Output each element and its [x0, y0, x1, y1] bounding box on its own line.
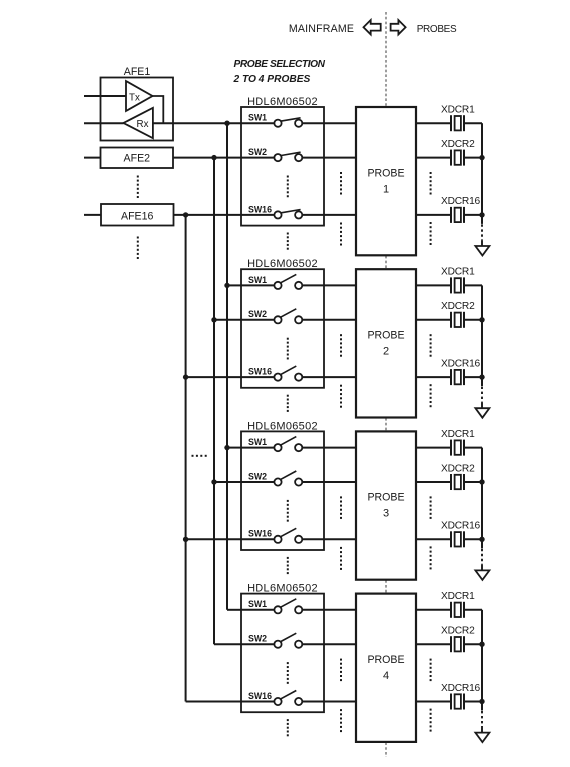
svg-text:XDCR2: XDCR2: [441, 463, 475, 474]
svg-text:SW16: SW16: [248, 691, 272, 701]
svg-text:SW2: SW2: [248, 471, 267, 481]
svg-text:XDCR16: XDCR16: [441, 196, 481, 207]
svg-text:1: 1: [383, 183, 389, 195]
svg-text:3: 3: [383, 508, 389, 520]
svg-text:PROBES: PROBES: [417, 24, 457, 35]
svg-text:SW1: SW1: [248, 113, 267, 123]
svg-text:SW16: SW16: [248, 367, 272, 377]
svg-text:PROBE SELECTION: PROBE SELECTION: [234, 59, 326, 70]
svg-text:XDCR16: XDCR16: [441, 358, 481, 369]
svg-text:XDCR1: XDCR1: [441, 105, 475, 116]
svg-text:SW1: SW1: [248, 275, 267, 285]
svg-text:2 TO 4 PROBES: 2 TO 4 PROBES: [233, 74, 311, 85]
svg-text:PROBE: PROBE: [367, 492, 404, 504]
svg-text:SW2: SW2: [248, 309, 267, 319]
svg-text:XDCR1: XDCR1: [441, 591, 475, 602]
svg-text:XDCR16: XDCR16: [441, 683, 481, 694]
svg-text:SW2: SW2: [248, 147, 267, 157]
svg-text:SW1: SW1: [248, 437, 267, 447]
svg-text:SW16: SW16: [248, 204, 272, 214]
svg-text:XDCR1: XDCR1: [441, 267, 475, 278]
svg-text:XDCR2: XDCR2: [441, 139, 475, 150]
svg-text:XDCR2: XDCR2: [441, 301, 475, 312]
svg-text:2: 2: [383, 346, 389, 358]
svg-text:AFE2: AFE2: [124, 152, 151, 164]
svg-text:SW2: SW2: [248, 634, 267, 644]
svg-text:MAINFRAME: MAINFRAME: [289, 23, 354, 35]
svg-text:XDCR2: XDCR2: [441, 626, 475, 637]
svg-text:SW1: SW1: [248, 599, 267, 609]
svg-text:SW16: SW16: [248, 529, 272, 539]
svg-text:AFE1: AFE1: [124, 66, 151, 78]
svg-text:PROBE: PROBE: [367, 330, 404, 342]
svg-text:PROBE: PROBE: [367, 167, 404, 179]
svg-text:XDCR16: XDCR16: [441, 521, 481, 532]
svg-text:XDCR1: XDCR1: [441, 429, 475, 440]
svg-text:Rx: Rx: [137, 119, 149, 130]
svg-text:AFE16: AFE16: [121, 210, 153, 222]
svg-text:4: 4: [383, 670, 389, 682]
svg-text:PROBE: PROBE: [367, 654, 404, 666]
svg-text:Tx: Tx: [129, 92, 140, 103]
